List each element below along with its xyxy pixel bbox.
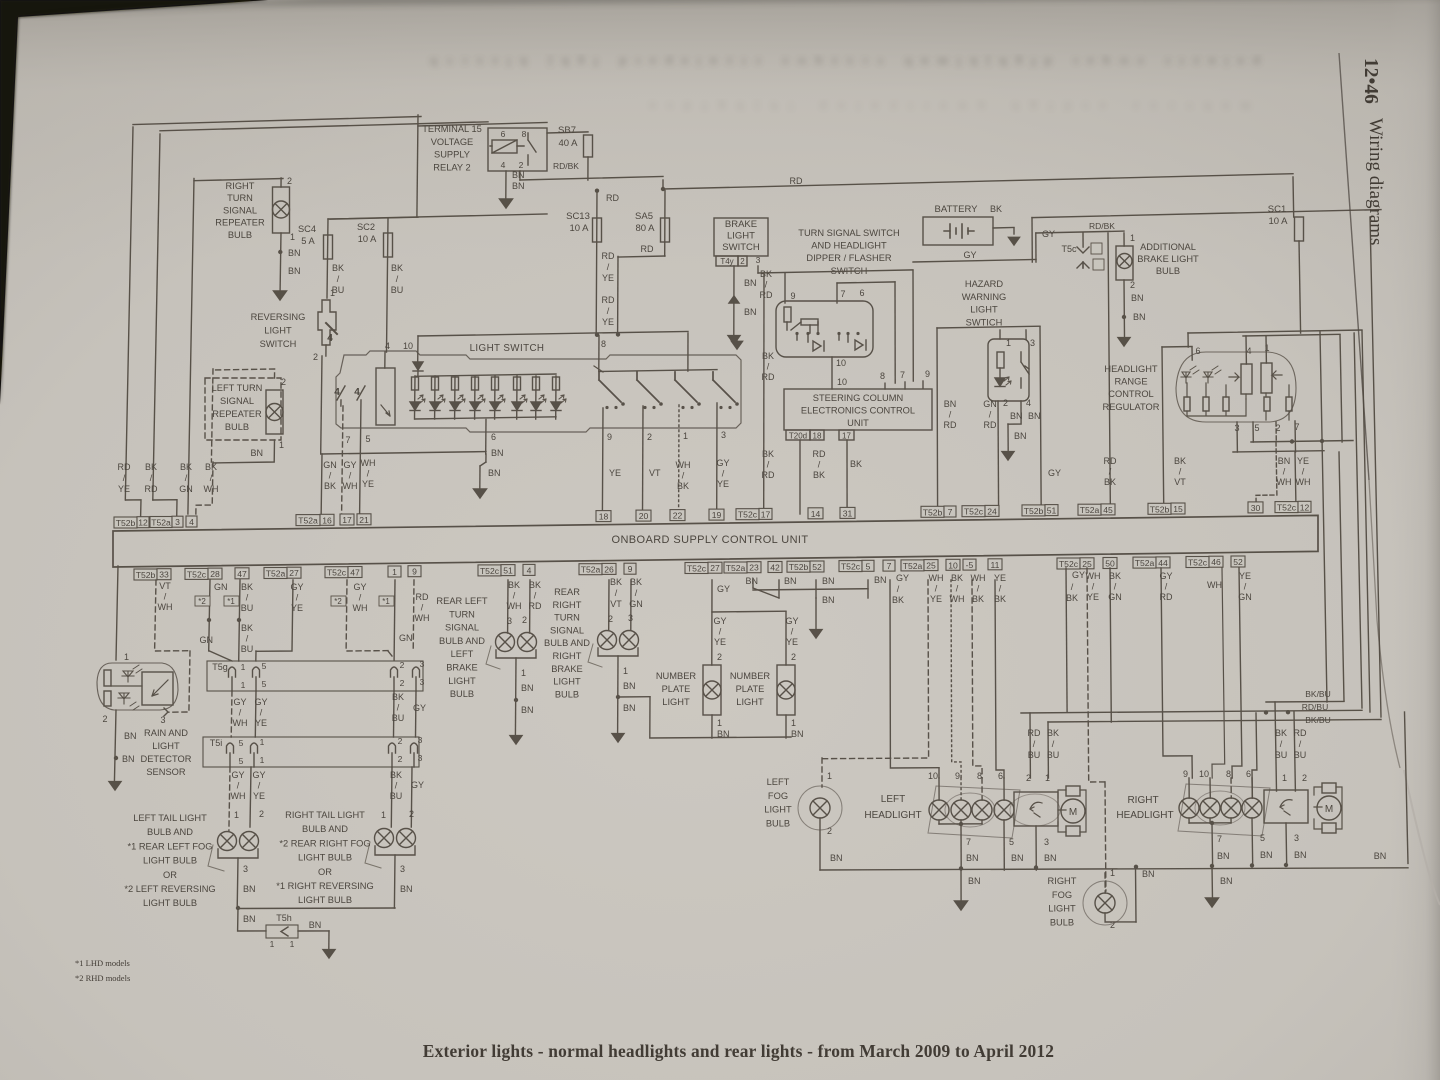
svg-text:2: 2	[102, 714, 107, 724]
svg-text:GY: GY	[231, 770, 244, 780]
wire sensor pin2 to ground	[114, 710, 137, 783]
connector T4y	[716, 255, 761, 266]
svg-text:T52a: T52a	[151, 518, 171, 528]
svg-text:BN: BN	[491, 448, 504, 458]
svg-text:BN: BN	[968, 876, 981, 886]
svg-text:3: 3	[756, 255, 761, 265]
svg-text:BN: BN	[944, 399, 957, 409]
svg-text:4: 4	[385, 341, 390, 351]
svg-text:14: 14	[811, 509, 821, 519]
turn switch outer frame	[758, 270, 913, 381]
turn switch inner frame	[837, 282, 895, 383]
svg-text:BK: BK	[391, 263, 403, 273]
svg-text:RIGHT: RIGHT	[553, 651, 582, 661]
svg-text:BK: BK	[324, 481, 336, 491]
svg-text:LIGHT BULB: LIGHT BULB	[143, 856, 197, 866]
wire RD bus	[661, 174, 1293, 192]
svg-text:REGULATOR: REGULATOR	[1103, 402, 1160, 412]
svg-text:BN: BN	[1260, 850, 1273, 860]
svg-text:WH: WH	[343, 481, 358, 491]
svg-text:VT: VT	[610, 599, 622, 609]
svg-text:YE: YE	[786, 637, 798, 647]
svg-text:RIGHT: RIGHT	[1048, 876, 1077, 886]
svg-text:RD: RD	[1028, 728, 1041, 738]
svg-text:44: 44	[1158, 558, 1168, 568]
relay terminal15 box frame	[330, 115, 547, 219]
svg-text:PLATE: PLATE	[662, 684, 691, 694]
svg-text:BULB: BULB	[450, 689, 474, 699]
svg-text:1: 1	[683, 431, 688, 441]
svg-text:BN: BN	[1133, 312, 1146, 322]
ground sensor	[109, 782, 121, 790]
svg-text:9: 9	[412, 567, 417, 577]
svg-text:BN: BN	[124, 731, 137, 741]
svg-text:8: 8	[522, 129, 527, 139]
wire right BN bus	[1134, 712, 1408, 900]
svg-text:5: 5	[262, 661, 267, 671]
wire hazard pin4 BN	[1008, 398, 1041, 452]
wire supply bus y218	[328, 214, 547, 219]
svg-text:BN: BN	[822, 595, 835, 605]
svg-text:11: 11	[991, 560, 1000, 570]
svg-text:2: 2	[313, 352, 318, 362]
svg-text:51: 51	[503, 566, 513, 576]
svg-text:1: 1	[521, 668, 526, 678]
svg-text:LEFT TAIL LIGHT: LEFT TAIL LIGHT	[133, 813, 207, 823]
wire tail lights BN bus	[236, 906, 395, 931]
relay K-terminal15 body	[488, 128, 547, 171]
svg-text:T52c: T52c	[1059, 559, 1079, 569]
svg-text:T52a: T52a	[266, 569, 286, 579]
svg-text:DIPPER / FLASHER: DIPPER / FLASHER	[806, 253, 892, 263]
svg-text:GN: GN	[399, 633, 413, 643]
switch reversing light	[313, 288, 337, 362]
lamp left fog light bulb	[798, 771, 843, 870]
wire RD/BK to bulb	[1036, 221, 1124, 233]
ground left headlight	[955, 901, 968, 910]
label BN/RD hazard left	[944, 399, 957, 430]
svg-text:LIGHT: LIGHT	[727, 231, 755, 242]
svg-text:GY: GY	[785, 616, 798, 626]
regulator pins	[1195, 343, 1299, 433]
svg-text:3: 3	[175, 517, 180, 527]
svg-text:BK: BK	[850, 459, 862, 469]
svg-text:BN: BN	[1278, 456, 1291, 466]
svg-text:RD: RD	[813, 449, 826, 459]
svg-text:PLATE: PLATE	[736, 684, 765, 694]
svg-text:SWITCH: SWITCH	[722, 242, 760, 253]
svg-text:4: 4	[334, 387, 340, 398]
svg-text:GY: GY	[1048, 468, 1061, 478]
svg-text:BU: BU	[1294, 750, 1307, 760]
svg-text:1: 1	[241, 680, 246, 690]
svg-text:NUMBER: NUMBER	[656, 671, 697, 681]
svg-text:LIGHT: LIGHT	[553, 677, 581, 687]
wire brake switch pin3 BK/RD	[758, 266, 775, 480]
svg-text:T52c: T52c	[187, 569, 207, 579]
svg-text:T52c: T52c	[841, 562, 861, 572]
svg-text:SIGNAL: SIGNAL	[445, 623, 479, 633]
switch hazard body	[988, 330, 1035, 401]
svg-text:RELAY 2: RELAY 2	[433, 162, 470, 172]
svg-text:YE: YE	[291, 603, 303, 613]
svg-text:GY: GY	[896, 573, 909, 583]
svg-text:T52b: T52b	[116, 518, 136, 528]
svg-text:WH: WH	[353, 603, 368, 613]
svg-text:BN: BN	[744, 278, 757, 288]
svg-text:WARNING: WARNING	[962, 292, 1007, 302]
svg-text:GN: GN	[1108, 592, 1122, 602]
svg-text:1: 1	[791, 718, 796, 728]
svg-text:LIGHT: LIGHT	[970, 305, 998, 315]
svg-text:5: 5	[365, 434, 370, 444]
svg-text:5 A: 5 A	[301, 236, 315, 246]
svg-text:BN: BN	[512, 170, 525, 180]
wire BK/BU long bus	[1048, 217, 1381, 725]
labels GN/BK GY/WH WH/YE	[323, 434, 375, 491]
lamp left tail light bulbs	[208, 832, 259, 909]
wire BK/WH dotted	[950, 573, 965, 778]
light switch output pins	[602, 403, 729, 514]
wire turn switch pin10	[832, 357, 847, 389]
regulator bottom buses	[1233, 421, 1353, 452]
svg-text:8: 8	[977, 771, 982, 781]
svg-text:5: 5	[866, 561, 871, 571]
svg-text:3: 3	[243, 864, 248, 874]
svg-text:BK/BU: BK/BU	[1305, 689, 1331, 699]
svg-text:BN: BN	[744, 307, 757, 317]
wire sensor pin3 dashed	[155, 580, 190, 716]
svg-text:3: 3	[1294, 833, 1299, 843]
svg-text:1: 1	[234, 810, 239, 820]
svg-text:RD/BK: RD/BK	[553, 161, 579, 171]
svg-text:GY: GY	[353, 582, 366, 592]
svg-text:BN: BN	[1044, 853, 1057, 863]
svg-text:RIGHT: RIGHT	[1127, 795, 1158, 806]
svg-text:LIGHT BULB: LIGHT BULB	[298, 853, 352, 863]
svg-text:YE: YE	[994, 573, 1006, 583]
svg-text:BN: BN	[1131, 293, 1144, 303]
box steering column electronics control unit	[784, 389, 932, 430]
svg-text:1: 1	[1282, 773, 1287, 783]
fuse SC13 10A	[566, 189, 619, 335]
svg-text:12: 12	[138, 518, 148, 528]
svg-text:WH: WH	[1277, 477, 1292, 487]
ground rear left bulbs	[510, 736, 522, 744]
label left turn signal repeater bulb	[212, 383, 263, 432]
svg-text:BULB: BULB	[225, 422, 249, 432]
svg-text:RANGE: RANGE	[1114, 377, 1147, 387]
lamp left headlight bulbs	[928, 771, 1014, 820]
turn signal switch body	[776, 288, 873, 357]
ground right repeater	[274, 291, 287, 300]
svg-text:BN: BN	[874, 575, 887, 585]
regulator top wires	[1188, 330, 1370, 712]
svg-text:WH: WH	[233, 718, 248, 728]
svg-text:BN: BN	[288, 248, 301, 258]
wire GY/RD to right headlight	[1159, 568, 1192, 778]
ground additional brake bulb	[1118, 338, 1130, 346]
svg-text:BK: BK	[630, 577, 642, 587]
lamp rear left turn/brake bulbs	[486, 633, 537, 738]
svg-text:7: 7	[840, 289, 845, 299]
svg-text:2: 2	[287, 176, 292, 186]
svg-text:BULB: BULB	[1156, 266, 1180, 276]
svg-text:BN: BN	[784, 576, 797, 586]
svg-text:10: 10	[836, 358, 846, 368]
svg-text:8: 8	[1226, 769, 1231, 779]
ground right headlight	[1206, 898, 1219, 907]
label terminal 15 voltage supply relay 2	[422, 124, 482, 172]
svg-text:17: 17	[342, 515, 352, 525]
wire BK/BU short bus	[1266, 452, 1344, 702]
svg-text:10: 10	[837, 377, 847, 387]
svg-text:*2 REAR RIGHT FOG: *2 REAR RIGHT FOG	[279, 838, 370, 848]
svg-text:2: 2	[398, 754, 403, 764]
svg-text:BK: BK	[529, 580, 541, 590]
svg-text:BK: BK	[813, 470, 825, 480]
right headlight motor	[1314, 783, 1342, 833]
svg-text:BU: BU	[241, 644, 254, 654]
svg-text:ONBOARD SUPPLY CONTROL UNIT: ONBOARD SUPPLY CONTROL UNIT	[611, 534, 808, 546]
wire ecu outputs to bar	[764, 273, 862, 514]
svg-text:52: 52	[812, 562, 822, 572]
wire YE/GN right	[1232, 568, 1252, 778]
svg-text:2: 2	[1302, 773, 1307, 783]
svg-text:SC13: SC13	[566, 211, 590, 222]
svg-text:4: 4	[354, 387, 360, 398]
svg-text:LEFT: LEFT	[451, 649, 474, 659]
svg-text:VT: VT	[159, 581, 171, 591]
svg-text:2: 2	[400, 660, 405, 670]
svg-text:T52c: T52c	[964, 507, 984, 517]
svg-text:T52c: T52c	[738, 510, 758, 520]
svg-text:BULB AND: BULB AND	[544, 638, 590, 648]
svg-text:BN: BN	[966, 853, 979, 863]
svg-text:BN: BN	[243, 884, 256, 894]
svg-text:9: 9	[925, 369, 930, 379]
svg-text:WH: WH	[1207, 580, 1222, 590]
wire GY/BK right side	[1066, 568, 1085, 712]
svg-text:BK: BK	[990, 204, 1002, 214]
right leveling actuator	[1264, 790, 1308, 866]
svg-text:RD: RD	[760, 290, 773, 300]
svg-text:BK: BK	[1109, 571, 1121, 581]
svg-text:1: 1	[827, 771, 832, 781]
svg-text:T52b: T52b	[1150, 504, 1170, 514]
svg-text:YE: YE	[602, 273, 614, 283]
svg-text:-5: -5	[966, 560, 974, 570]
fuse SC1 10A	[1268, 177, 1304, 333]
svg-text:1: 1	[260, 755, 265, 765]
svg-text:6: 6	[491, 432, 496, 442]
svg-text:WH: WH	[158, 602, 173, 612]
svg-text:T5c: T5c	[1061, 244, 1077, 254]
svg-text:2: 2	[1130, 280, 1135, 290]
svg-text:12: 12	[1300, 502, 1310, 512]
svg-text:UNIT: UNIT	[847, 418, 869, 428]
svg-text:T52c: T52c	[1277, 503, 1297, 513]
lamp right headlight bulbs	[1179, 769, 1262, 818]
svg-text:1: 1	[1110, 868, 1115, 878]
svg-text:7: 7	[887, 561, 892, 571]
svg-text:1: 1	[717, 718, 722, 728]
svg-text:RD/BK: RD/BK	[1089, 221, 1115, 231]
svg-text:T4y: T4y	[720, 257, 733, 266]
lamp number plate light 2	[730, 665, 804, 739]
svg-text:12•46: 12•46	[1360, 58, 1381, 104]
svg-text:GY: GY	[290, 582, 303, 592]
svg-text:2: 2	[400, 678, 405, 688]
svg-text:HEADLIGHT: HEADLIGHT	[1104, 364, 1158, 374]
svg-text:REAR: REAR	[554, 587, 580, 597]
svg-text:2: 2	[608, 614, 613, 624]
svg-text:20: 20	[639, 511, 649, 521]
wire GY/YE from T52a27	[256, 580, 304, 661]
svg-text:BULB AND: BULB AND	[147, 827, 193, 837]
wire battery to down-arrow	[993, 228, 1020, 246]
svg-text:2: 2	[259, 809, 264, 819]
svg-text:25: 25	[926, 561, 936, 571]
wire to pin T52b12	[118, 179, 195, 515]
svg-text:RAIN AND: RAIN AND	[144, 728, 188, 738]
svg-text:BN: BN	[1010, 411, 1023, 421]
svg-text:BK: BK	[994, 594, 1006, 604]
svg-text:BRAKE: BRAKE	[446, 663, 478, 673]
svg-text:WH: WH	[1086, 571, 1101, 581]
svg-text:27: 27	[289, 568, 299, 578]
svg-text:BU: BU	[392, 713, 405, 723]
wire relay pin2 run	[520, 171, 663, 180]
svg-text:1: 1	[260, 737, 265, 747]
wire relay pin4 to ground	[506, 170, 525, 198]
svg-text:BN: BN	[521, 683, 534, 693]
svg-text:6: 6	[1246, 769, 1251, 779]
svg-text:8: 8	[601, 339, 606, 349]
wire outer frame left	[125, 117, 421, 518]
label right headlight	[1116, 795, 1173, 821]
svg-text:T52a: T52a	[1080, 505, 1100, 515]
svg-text:BK: BK	[332, 263, 344, 273]
svg-text:BULB: BULB	[766, 818, 790, 828]
svg-text:2: 2	[647, 432, 652, 442]
svg-text:GY: GY	[254, 697, 267, 707]
svg-text:BK: BK	[180, 462, 192, 472]
svg-text:Wiring diagrams: Wiring diagrams	[1365, 118, 1386, 245]
svg-text:YE: YE	[362, 479, 374, 489]
svg-text:SIGNAL: SIGNAL	[223, 205, 257, 215]
svg-text:GN: GN	[983, 399, 997, 409]
svg-text:18: 18	[599, 512, 609, 522]
svg-text:T52c: T52c	[687, 564, 707, 574]
svg-text:OR: OR	[163, 870, 177, 880]
svg-text:6: 6	[501, 129, 506, 139]
svg-text:1: 1	[124, 652, 129, 662]
wire RD/YE feed bus	[418, 331, 688, 371]
arrow RD/YE into switch	[732, 336, 743, 349]
sensor rain and light detector body	[97, 652, 178, 725]
label right turn signal repeater bulb	[215, 181, 265, 240]
svg-text:52: 52	[1233, 557, 1243, 567]
svg-text:RD: RD	[944, 420, 957, 430]
svg-text:WH: WH	[929, 573, 944, 583]
svg-text:TURN: TURN	[554, 613, 580, 623]
svg-text:T52b: T52b	[1024, 506, 1044, 516]
fuse SA5 80A	[618, 191, 670, 335]
svg-text:Exterior lights - normal headl: Exterior lights - normal headlights and …	[423, 1041, 1054, 1061]
connector T5i	[203, 735, 423, 767]
label BK/GN column	[179, 462, 193, 494]
svg-text:REPEATER: REPEATER	[212, 409, 262, 419]
svg-text:T52c: T52c	[1188, 558, 1208, 568]
svg-text:GN: GN	[1238, 592, 1252, 602]
svg-text:3: 3	[1030, 338, 1035, 348]
svg-text:28: 28	[210, 569, 220, 579]
svg-text:GN: GN	[179, 484, 193, 494]
svg-text:45: 45	[1103, 505, 1113, 515]
svg-text:BK: BK	[508, 580, 520, 590]
svg-text:24: 24	[987, 506, 997, 516]
wire T5h to ground	[298, 931, 329, 950]
wire GY from T52c27	[712, 580, 799, 665]
svg-text:YE: YE	[717, 479, 729, 489]
svg-text:SC2: SC2	[357, 222, 375, 232]
svg-text:10 A: 10 A	[569, 223, 589, 234]
light switch lamp bus	[415, 374, 556, 419]
svg-text:3: 3	[400, 864, 405, 874]
wires BN ground cluster	[745, 575, 886, 630]
svg-text:REVERSING: REVERSING	[251, 312, 306, 322]
svg-text:REPEATER: REPEATER	[215, 218, 265, 228]
svg-text:3: 3	[418, 735, 423, 745]
svg-text:GY: GY	[716, 458, 729, 468]
right headlight outline	[1178, 784, 1270, 836]
wire right bulb6 feed	[1252, 713, 1257, 798]
svg-text:17: 17	[842, 432, 851, 441]
svg-text:BN: BN	[745, 576, 758, 586]
svg-text:RD: RD	[641, 244, 654, 254]
svg-text:17: 17	[761, 509, 771, 519]
svg-text:BN: BN	[1014, 431, 1027, 441]
svg-text:30: 30	[1251, 503, 1261, 513]
connector T5h	[266, 913, 321, 949]
svg-text:FOG: FOG	[768, 791, 788, 801]
svg-text:GY: GY	[411, 780, 424, 790]
svg-text:9: 9	[607, 432, 612, 442]
svg-text:RD: RD	[1160, 592, 1173, 602]
svg-text:BK: BK	[892, 595, 904, 605]
svg-text:9: 9	[790, 291, 795, 301]
svg-text:BN: BN	[1220, 876, 1233, 886]
wire YE/BK	[994, 573, 1006, 778]
svg-text:GY: GY	[717, 584, 730, 594]
svg-text:RD/BU: RD/BU	[1302, 702, 1328, 712]
svg-text:40 A: 40 A	[558, 138, 578, 149]
wire right repeater pin1 to ground	[278, 232, 300, 290]
svg-text:LEFT: LEFT	[767, 777, 790, 787]
svg-text:BU: BU	[391, 285, 404, 295]
svg-text:WH: WH	[507, 601, 522, 611]
label rain and light detector sensor	[141, 728, 192, 777]
svg-text:*2: *2	[334, 597, 342, 606]
svg-text:BN: BN	[488, 468, 501, 478]
label rear right turn signal bulb	[544, 587, 590, 699]
svg-text:GY: GY	[963, 250, 976, 260]
svg-text:21: 21	[359, 515, 369, 525]
svg-text:BN: BN	[1142, 869, 1155, 879]
svg-text:7: 7	[948, 507, 953, 517]
svg-text:18: 18	[813, 432, 822, 441]
